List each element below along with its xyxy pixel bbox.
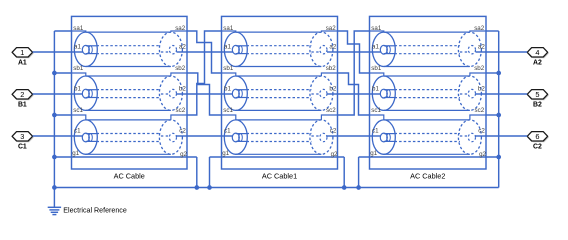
cable glyph b (AC Cable) <box>72 65 188 110</box>
svg-text:A2: A2 <box>533 60 542 67</box>
wire g2 drop gap1 <box>196 157 198 188</box>
svg-text:sb2: sb2 <box>175 65 186 72</box>
node g1 rail junction gap2 <box>356 185 361 190</box>
svg-text:sa2: sa2 <box>474 25 485 32</box>
svg-text:sc1: sc1 <box>223 107 233 114</box>
svg-text:a2: a2 <box>329 44 336 51</box>
wire sc2 stub block3 <box>486 114 499 116</box>
outport 4 (A2) <box>527 48 549 67</box>
svg-text:b2: b2 <box>329 86 336 93</box>
node g1 junction <box>52 155 57 160</box>
wire sa2 stub block3 <box>486 30 499 32</box>
cable glyph c (AC Cable2) <box>370 107 487 154</box>
wire sb2-sc1 crossbond gap2 <box>338 73 370 115</box>
svg-text:a1: a1 <box>74 44 81 51</box>
node g1 rail junction gap1 <box>207 185 212 190</box>
wire sb2-sc1 crossbond gap1 <box>187 73 222 115</box>
ground (Electrical Reference) <box>48 188 61 215</box>
wire a2 to A2 <box>486 51 527 53</box>
svg-text:b2: b2 <box>179 86 186 93</box>
outport 5 (B2) <box>527 90 549 109</box>
cable glyph a (AC Cable2) <box>370 25 487 66</box>
svg-text:C1: C1 <box>18 144 27 151</box>
svg-text:sa1: sa1 <box>73 25 84 32</box>
svg-text:a1: a1 <box>372 44 379 51</box>
svg-text:b2: b2 <box>478 86 485 93</box>
svg-text:4: 4 <box>535 48 539 57</box>
svg-text:c1: c1 <box>74 128 81 135</box>
wire b conductor gap2 <box>338 93 370 95</box>
wire sc2-sa1 crossbond gap2 <box>338 31 370 115</box>
svg-text:2: 2 <box>20 90 24 99</box>
svg-text:b1: b1 <box>224 86 231 93</box>
wire sb2 stub block3 <box>486 72 499 74</box>
svg-text:g2: g2 <box>180 151 187 158</box>
svg-text:sc1: sc1 <box>73 107 83 114</box>
svg-text:B2: B2 <box>533 102 542 109</box>
svg-text:5: 5 <box>535 90 539 99</box>
svg-text:c1: c1 <box>224 128 231 135</box>
wire g2 drop gap2 <box>343 157 345 188</box>
svg-text:sa1: sa1 <box>223 25 234 32</box>
svg-text:c2: c2 <box>478 128 485 135</box>
svg-text:sc2: sc2 <box>176 107 186 114</box>
svg-text:AC Cable: AC Cable <box>114 171 145 180</box>
svg-text:g2: g2 <box>331 151 338 158</box>
svg-text:g1: g1 <box>222 150 229 157</box>
wire A1 to a1 <box>33 51 72 53</box>
wire right ground bus <box>498 31 500 188</box>
cable glyph b (AC Cable1) <box>222 65 338 110</box>
svg-text:sb1: sb1 <box>223 65 234 72</box>
svg-text:6: 6 <box>535 132 539 141</box>
wire sa1 stub <box>54 30 71 32</box>
wire sa2-sb1 crossbond gap2 <box>338 31 370 73</box>
svg-text:B1: B1 <box>18 102 27 109</box>
svg-text:b1: b1 <box>372 86 379 93</box>
wire b2 to B2 <box>486 93 527 95</box>
block AC Cable outline <box>72 16 188 169</box>
svg-text:Electrical Reference: Electrical Reference <box>63 206 127 214</box>
node sb2 junction <box>496 71 501 76</box>
wire c conductor gap2 <box>338 135 370 137</box>
svg-text:sa2: sa2 <box>175 25 186 32</box>
wire left ground bus <box>53 31 55 188</box>
svg-text:sb1: sb1 <box>73 65 84 72</box>
cable glyph c (AC Cable) <box>72 107 188 154</box>
cable glyph c (AC Cable1) <box>222 107 338 154</box>
wire sa2-sb1 crossbond gap1 <box>187 31 222 73</box>
svg-text:c2: c2 <box>330 128 337 135</box>
svg-text:1: 1 <box>20 48 24 57</box>
wire b conductor gap1 <box>187 93 222 95</box>
svg-text:3: 3 <box>20 132 24 141</box>
cable glyph a (AC Cable1) <box>222 25 338 66</box>
svg-text:sc2: sc2 <box>326 107 336 114</box>
svg-text:A1: A1 <box>18 60 27 67</box>
svg-text:sb2: sb2 <box>474 65 485 72</box>
node g2 rail junction gap1 <box>194 185 199 190</box>
svg-text:AC Cable2: AC Cable2 <box>410 171 445 180</box>
wire g1 drop gap2 <box>358 157 360 188</box>
node sc2 junction <box>496 113 501 118</box>
svg-text:sa1: sa1 <box>371 25 382 32</box>
node g2 rail junction gap2 <box>342 185 347 190</box>
inport 1 (A1) <box>12 48 34 67</box>
wire c2 to C2 <box>486 135 527 137</box>
svg-text:g1: g1 <box>72 150 79 157</box>
inport 2 (B1) <box>12 90 34 109</box>
wire sc1 stub <box>54 114 71 116</box>
svg-text:AC Cable1: AC Cable1 <box>262 171 297 180</box>
svg-text:c2: c2 <box>179 128 186 135</box>
wire B1 to b1 <box>33 93 72 95</box>
svg-text:sc1: sc1 <box>371 107 381 114</box>
block AC Cable1 outline <box>222 16 338 169</box>
wire C1 to c1 <box>33 135 72 137</box>
wire g row block3 <box>359 156 499 158</box>
svg-text:b1: b1 <box>74 86 81 93</box>
svg-text:C2: C2 <box>533 144 542 151</box>
node g2 junction <box>496 155 501 160</box>
wire ground rail <box>54 187 498 189</box>
wire sb1 stub <box>54 72 71 74</box>
svg-text:g1: g1 <box>370 150 377 157</box>
outport 6 (C2) <box>527 132 549 151</box>
node sc1 junction <box>52 113 57 118</box>
wire a conductor gap1 <box>187 51 222 53</box>
svg-text:sb2: sb2 <box>326 65 337 72</box>
cable glyph b (AC Cable2) <box>370 65 487 110</box>
svg-text:c1: c1 <box>372 128 379 135</box>
svg-text:g2: g2 <box>479 151 486 158</box>
svg-text:sb1: sb1 <box>371 65 382 72</box>
wire c conductor gap1 <box>187 135 222 137</box>
wire a conductor gap2 <box>338 51 370 53</box>
wire sc2-sa1 crossbond gap1 <box>187 31 222 115</box>
node rail-left junction <box>52 185 57 190</box>
wire g1 drop gap1 <box>209 157 211 188</box>
svg-text:a2: a2 <box>179 44 186 51</box>
wire g row block1 <box>54 156 196 158</box>
svg-text:sc2: sc2 <box>475 107 485 114</box>
block AC Cable2 outline <box>370 16 487 169</box>
svg-text:a1: a1 <box>224 44 231 51</box>
node sb1 junction <box>52 71 57 76</box>
wire g row block2 <box>210 156 345 158</box>
cable glyph a (AC Cable) <box>72 25 188 66</box>
inport 3 (C1) <box>12 132 34 151</box>
svg-text:sa2: sa2 <box>326 25 337 32</box>
svg-text:a2: a2 <box>478 44 485 51</box>
